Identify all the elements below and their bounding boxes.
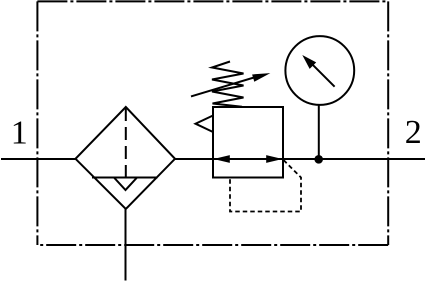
svg-text:1: 1 xyxy=(11,114,28,151)
svg-text:2: 2 xyxy=(405,114,422,151)
